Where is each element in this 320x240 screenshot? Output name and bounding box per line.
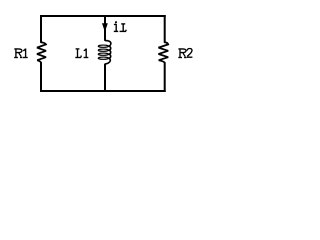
- label L1 : glyph L: [75, 49, 81, 58]
- label R2 : glyph R: [178, 49, 186, 58]
- label R1 : glyph 1: [23, 49, 28, 58]
- wire right bottom lead: [164, 62, 166, 92]
- wire left bottom lead: [40, 62, 42, 92]
- label iL : glyph i: [114, 21, 118, 31]
- resistor R2: [159, 42, 169, 62]
- resistor R1: [37, 42, 46, 62]
- label iL : glyph L: [120, 24, 127, 32]
- wire middle top lead: [104, 15, 106, 41]
- wire left top lead: [40, 15, 42, 42]
- wire middle bottom lead: [104, 64, 106, 92]
- wire top rail: [40, 15, 166, 17]
- label R1 : glyph R: [14, 49, 22, 58]
- label L1 : glyph 1: [84, 49, 89, 58]
- label R2 : glyph 2: [187, 49, 193, 58]
- inductor L1 coil: [105, 41, 111, 64]
- wire bottom rail: [40, 90, 166, 92]
- arrowhead of current iL: [102, 23, 108, 32]
- wire right top lead: [164, 15, 166, 42]
